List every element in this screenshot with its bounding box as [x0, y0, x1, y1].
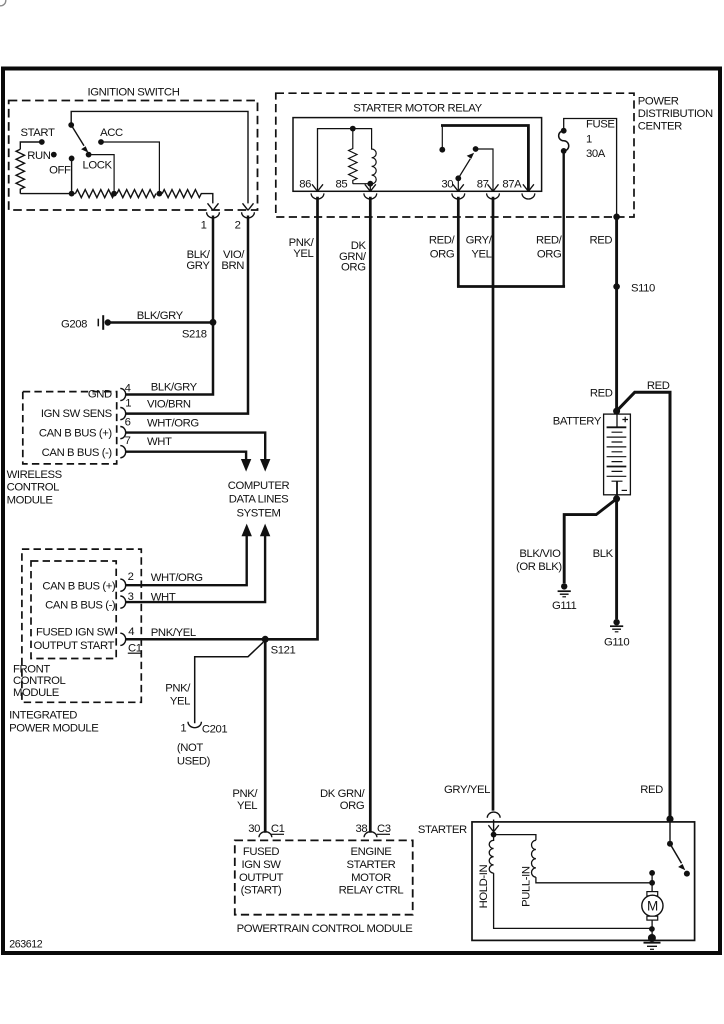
svg-text:1: 1	[125, 398, 131, 410]
svg-text:ORG: ORG	[537, 248, 562, 260]
battery negative node	[613, 495, 620, 502]
relay NO contact 87	[473, 146, 479, 152]
wire BLK/VIO battery to G111	[564, 499, 616, 583]
WCM pin 4 socket	[120, 388, 125, 400]
wire 2 VIO/BRN terminal2 to WCM pin1	[126, 216, 248, 414]
wire PNK/YEL relay 86 down to S121 row	[265, 197, 317, 640]
power distribution center dashed box	[276, 93, 634, 217]
svg-text:ORG: ORG	[340, 800, 365, 812]
relay pin 87A arrow	[523, 184, 534, 191]
svg-text:RUN: RUN	[27, 150, 51, 162]
svg-text:GRY/: GRY/	[466, 235, 493, 247]
motor lead bottom	[651, 920, 653, 938]
svg-text:BLK/GRY: BLK/GRY	[151, 382, 198, 394]
svg-text:G110: G110	[604, 637, 629, 649]
svg-text:FRONT: FRONT	[13, 663, 50, 675]
relay arm arrowhead	[467, 153, 474, 159]
wire ACC link	[101, 142, 159, 194]
svg-text:FUSE: FUSE	[586, 119, 615, 131]
wire RED/ORG fuse down	[563, 151, 565, 288]
svg-text:HOLD-IN: HOLD-IN	[478, 865, 490, 909]
svg-text:WHT/ORG: WHT/ORG	[151, 572, 203, 584]
svg-text:GRY: GRY	[186, 260, 210, 272]
svg-text:YEL: YEL	[471, 248, 491, 260]
ignition switch arm	[71, 125, 84, 146]
svg-text:(NOT: (NOT	[177, 742, 204, 754]
svg-text:RED: RED	[640, 784, 663, 796]
wire WHT/ORG FCM pin2 to data lines	[126, 536, 247, 585]
motor M1 body	[642, 895, 663, 916]
fuse terminal top	[561, 128, 567, 134]
wire 87 contact to pin	[476, 149, 493, 191]
svg-text:S110: S110	[631, 282, 655, 294]
motor return node	[649, 926, 655, 932]
svg-text:STARTER MOTOR RELAY: STARTER MOTOR RELAY	[353, 103, 482, 115]
svg-text:MOTOR: MOTOR	[351, 872, 391, 884]
contact RUN	[51, 152, 57, 158]
svg-text:2: 2	[128, 571, 134, 583]
node PDC output	[613, 214, 620, 221]
wire BLK battery to G110	[615, 499, 618, 619]
svg-text:PNK/: PNK/	[232, 788, 258, 800]
svg-text:OUTPUT: OUTPUT	[239, 872, 284, 884]
ground G110	[613, 619, 619, 625]
svg-text:STARTER: STARTER	[347, 859, 396, 871]
fuse terminal bottom	[561, 148, 567, 154]
svg-text:RED: RED	[647, 380, 670, 392]
wire DK GRN/ORG relay 85 down to PCM 38	[369, 197, 372, 833]
svg-text:WHT: WHT	[147, 436, 172, 448]
svg-text:PULL-IN: PULL-IN	[521, 866, 533, 907]
ground G111	[561, 583, 567, 589]
svg-text:C201: C201	[202, 723, 228, 735]
svg-text:USED): USED)	[177, 755, 211, 767]
relay common pivot 30	[455, 175, 461, 181]
relay pin 87 arrow	[488, 184, 499, 191]
svg-text:DK GRN/: DK GRN/	[320, 788, 366, 800]
wire PNK/YEL FCM pin4 to S121	[126, 638, 265, 641]
wire GRY/YEL relay 87 down to starter	[492, 197, 495, 811]
svg-text:1: 1	[180, 723, 186, 735]
scan artifact top-left	[0, 0, 6, 6]
wire RED fuse to battery	[615, 217, 618, 411]
fuse 1 feed outline	[564, 119, 617, 217]
starter switch lead	[669, 819, 671, 844]
svg-text:(OR BLK): (OR BLK)	[516, 561, 562, 573]
svg-text:BLK/GRY: BLK/GRY	[137, 310, 184, 322]
svg-text:2: 2	[235, 220, 241, 232]
svg-text:RED/: RED/	[536, 235, 563, 247]
wireless control module dashed box	[23, 392, 117, 464]
svg-text:DATA LINES: DATA LINES	[229, 494, 289, 506]
starter switch feed node	[666, 815, 673, 822]
svg-text:ORG: ORG	[430, 248, 455, 260]
svg-text:POWER: POWER	[638, 95, 679, 107]
svg-text:3: 3	[128, 591, 134, 603]
starter solenoid feed stub	[493, 820, 495, 835]
svg-text:1: 1	[586, 134, 592, 146]
svg-text:DISTRIBUTION: DISTRIBUTION	[638, 108, 713, 120]
svg-text:ACC: ACC	[100, 127, 123, 139]
starter solenoid node	[491, 832, 497, 838]
svg-text:4: 4	[125, 383, 131, 395]
front control module dashed box	[31, 561, 116, 659]
starter switch contact A	[667, 841, 673, 847]
svg-text:YEL: YEL	[293, 248, 313, 260]
svg-text:CONTROL: CONTROL	[13, 675, 66, 687]
svg-text:LOCK: LOCK	[83, 160, 113, 172]
relay pin 86 cup	[311, 193, 324, 199]
svg-text:MODULE: MODULE	[13, 687, 60, 699]
wire node to pull-in coil	[494, 835, 536, 841]
PCM C1 underline	[271, 833, 284, 835]
relay coil winding	[353, 129, 376, 184]
battery positive node	[613, 408, 620, 415]
battery BATT outline	[604, 414, 631, 495]
contact LOCK	[86, 152, 92, 158]
relay pin 30 cup	[452, 193, 465, 199]
arrow down WHT/ORG	[260, 459, 270, 472]
svg-text:BLK: BLK	[593, 548, 614, 560]
wire LOCK link	[89, 155, 115, 194]
svg-text:YEL: YEL	[237, 800, 257, 812]
wire WHT FCM pin3 to data lines	[126, 536, 265, 602]
resistor ignition left vertical	[16, 149, 24, 193]
pull-in coil	[532, 840, 536, 877]
svg-text:86: 86	[299, 179, 311, 191]
svg-text:M: M	[647, 899, 658, 914]
motor top node A	[649, 870, 655, 876]
svg-text:SYSTEM: SYSTEM	[236, 507, 280, 519]
ignition switch rotor pivot	[68, 122, 74, 128]
wire BLK/GRY G208 to S218	[108, 321, 213, 323]
starter box	[472, 822, 695, 941]
battery plates	[607, 427, 627, 466]
connector C201 cup	[188, 722, 201, 728]
FCM C1 underline	[128, 652, 141, 654]
ignition switch dashed box	[9, 101, 258, 211]
wire RED battery to starter right side	[617, 392, 670, 819]
junction OFF bottom	[69, 191, 75, 197]
relay pin 85 arrow	[365, 184, 376, 191]
starter ground node	[648, 934, 656, 942]
relay pin 30 arrow	[453, 184, 464, 191]
svg-text:CAN B BUS (-): CAN B BUS (-)	[45, 600, 116, 612]
svg-text:ORG: ORG	[341, 262, 366, 274]
svg-text:STARTER: STARTER	[418, 824, 467, 836]
battery plus sign	[622, 417, 628, 423]
svg-text:GRY/YEL: GRY/YEL	[444, 784, 490, 796]
svg-text:30A: 30A	[586, 148, 606, 160]
ignition switch arm arrowhead	[81, 146, 88, 152]
arrow up WHT/ORG	[242, 524, 252, 537]
svg-text:C1: C1	[128, 642, 142, 654]
motor M1 brush top	[647, 892, 658, 896]
PCM pin 38 cap	[364, 832, 377, 838]
wire OFF vertical	[71, 158, 73, 193]
starter connector cap	[487, 812, 500, 818]
svg-text:BATTERY: BATTERY	[553, 416, 602, 428]
svg-text:ENGINE: ENGINE	[351, 846, 393, 858]
svg-text:POWERTRAIN CONTROL MODULE: POWERTRAIN CONTROL MODULE	[237, 923, 414, 935]
wire RED/ORG relay 30 down	[457, 197, 460, 288]
junction node LOCK bottom	[111, 191, 117, 197]
WCM pin 7 socket	[120, 446, 125, 458]
terminal 2 connector cup	[242, 212, 255, 218]
integrated power module dashed box	[22, 549, 141, 702]
svg-text:POWER MODULE: POWER MODULE	[9, 722, 99, 734]
svg-text:30: 30	[441, 179, 453, 191]
svg-text:263612: 263612	[9, 938, 42, 950]
svg-text:IGN SW: IGN SW	[241, 859, 281, 871]
wire hold-in to motor return	[494, 873, 652, 928]
svg-text:PNK/YEL: PNK/YEL	[151, 627, 196, 639]
svg-text:C1: C1	[271, 823, 285, 835]
relay pin 86 arrow	[312, 184, 323, 191]
WCM pin 1 socket	[120, 408, 125, 420]
starter ground symbol	[644, 942, 661, 944]
svg-text:RED/: RED/	[429, 235, 456, 247]
wire stub S121 to C201	[195, 642, 264, 723]
svg-text:FUSED: FUSED	[243, 846, 280, 858]
junction node ACC bottom	[157, 191, 163, 197]
terminal 1 connector cup	[207, 212, 220, 218]
svg-text:38: 38	[356, 823, 368, 835]
battery positive stem	[616, 414, 618, 427]
svg-text:WHT/ORG: WHT/ORG	[147, 417, 199, 429]
splice S121	[262, 636, 269, 643]
battery negative stem	[616, 481, 618, 495]
terminal 1 arrow	[208, 203, 219, 210]
motor M1 brush bottom	[647, 916, 658, 920]
svg-text:RED: RED	[590, 235, 613, 247]
svg-text:IGNITION SWITCH: IGNITION SWITCH	[88, 86, 180, 98]
resistor ignition bottom 1	[75, 190, 114, 198]
svg-text:OFF: OFF	[49, 165, 71, 177]
wire START to resistor	[20, 142, 42, 149]
relay coil feed wire pin 86	[318, 129, 353, 192]
svg-text:1: 1	[201, 220, 207, 232]
relay pin 85 stub	[369, 184, 371, 192]
powertrain control module dashed box	[235, 840, 413, 914]
FCM pin 3 socket	[120, 596, 125, 608]
svg-text:GND: GND	[88, 389, 112, 401]
relay coil bottom node	[367, 181, 373, 187]
svg-text:(START): (START)	[241, 885, 282, 897]
svg-text:BLK/VIO: BLK/VIO	[519, 548, 561, 560]
splice S110	[613, 283, 620, 290]
fuse F1 element	[559, 131, 569, 151]
svg-text:CONTROL: CONTROL	[7, 482, 60, 494]
svg-text:YEL: YEL	[170, 696, 190, 708]
resistor ignition bottom 3	[162, 190, 213, 204]
svg-text:4: 4	[128, 626, 134, 638]
relay NC contact	[439, 147, 445, 153]
svg-text:FUSED IGN SW: FUSED IGN SW	[36, 627, 115, 639]
starter switch arm arrowhead	[678, 864, 685, 870]
relay pin 85 cup	[364, 193, 377, 199]
starter motor relay box	[293, 118, 542, 192]
svg-text:INTEGRATED: INTEGRATED	[9, 710, 77, 722]
svg-text:RELAY CTRL: RELAY CTRL	[339, 885, 404, 897]
contact ACC	[98, 139, 104, 145]
FCM pin 2 socket	[120, 579, 125, 591]
svg-text:87: 87	[477, 179, 489, 191]
svg-text:S121: S121	[271, 644, 296, 656]
battery minus sign	[622, 489, 627, 491]
relay pin 87A cup	[522, 193, 535, 199]
relay pin 87 cup	[487, 193, 500, 199]
arrow up WHT	[260, 524, 270, 537]
svg-text:G111: G111	[552, 600, 576, 612]
WCM pin 6 socket	[120, 427, 125, 439]
relay coil resistor	[349, 129, 357, 184]
svg-text:VIO/BRN: VIO/BRN	[147, 398, 191, 410]
svg-text:7: 7	[125, 435, 131, 447]
wire PNK/YEL S121 to PCM 30	[264, 639, 267, 832]
svg-text:COMPUTER: COMPUTER	[228, 480, 290, 492]
relay coil top node	[350, 126, 356, 132]
resistor ignition bottom 2	[117, 190, 156, 198]
relay internal rail to 87A	[441, 126, 528, 192]
motor top node B	[649, 880, 655, 886]
splice S218	[210, 319, 217, 326]
relay coil bottom link	[353, 183, 371, 185]
svg-text:87A: 87A	[502, 179, 522, 191]
svg-text:MODULE: MODULE	[7, 494, 54, 506]
svg-text:WHT: WHT	[151, 592, 176, 604]
svg-text:CAN B BUS (+): CAN B BUS (+)	[39, 428, 113, 440]
svg-text:6: 6	[125, 417, 131, 429]
ground G208 symbol	[97, 319, 99, 327]
svg-text:CAN B BUS (+): CAN B BUS (+)	[42, 580, 116, 592]
wire NC contact to rail	[441, 126, 443, 150]
starter switch contact B	[684, 871, 690, 877]
svg-text:85: 85	[336, 179, 348, 191]
wire bus RED/ORG 30 to fuse	[457, 285, 564, 287]
wire WHT WCM pin7 to data lines	[126, 452, 246, 460]
svg-text:OUTPUT START: OUTPUT START	[33, 640, 114, 652]
svg-text:IGN SW SENS: IGN SW SENS	[41, 408, 113, 420]
wire WHT/ORG WCM pin6 to data lines	[126, 433, 265, 460]
wire pull-in to motor top	[536, 877, 652, 883]
wire 1 BLK/GRY terminal1 to WCM pin4	[126, 216, 213, 395]
FCM pin 4 socket	[120, 633, 125, 645]
svg-text:PNK/: PNK/	[165, 682, 191, 694]
wire ignition bottom left segment	[20, 193, 75, 195]
contact START	[39, 139, 45, 145]
relay pivot stub	[457, 178, 459, 191]
hold-in coil	[489, 835, 493, 874]
starter switch arm	[670, 844, 682, 864]
svg-text:CENTER: CENTER	[638, 120, 682, 132]
svg-text:WIRELESS: WIRELESS	[7, 469, 63, 481]
svg-text:CAN B BUS (-): CAN B BUS (-)	[42, 447, 113, 459]
svg-text:RED: RED	[590, 388, 613, 400]
wire rotor to top rail	[71, 111, 248, 203]
arrow down WHT	[241, 459, 251, 472]
PCM pin 30 cap	[259, 832, 272, 838]
motor lead top	[651, 873, 653, 892]
svg-text:C3: C3	[377, 823, 391, 835]
svg-text:30: 30	[248, 823, 260, 835]
PCM C3 underline	[377, 833, 390, 835]
svg-text:S218: S218	[182, 328, 207, 340]
terminal 2 arrow	[243, 203, 254, 210]
svg-text:START: START	[21, 127, 55, 139]
relay switch arm	[458, 159, 470, 179]
svg-text:G208: G208	[61, 318, 87, 330]
starter feed arrowhead	[488, 825, 498, 832]
svg-text:BRN: BRN	[221, 260, 244, 272]
contact OFF	[69, 156, 75, 162]
